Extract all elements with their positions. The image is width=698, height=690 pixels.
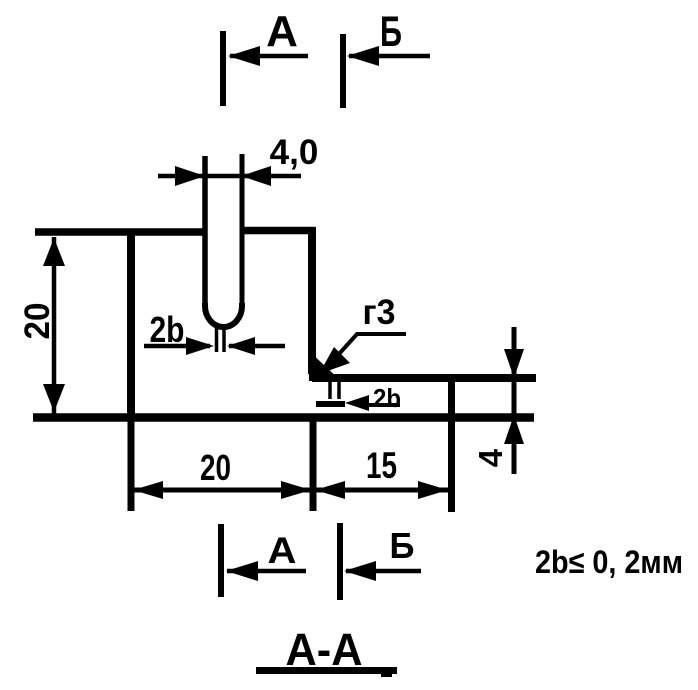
- body top edge right segment: [240, 227, 315, 235]
- section arrow A (bottom): [226, 561, 306, 581]
- dimension 20 left label: [18, 303, 57, 340]
- flange top edge with extension: [312, 374, 536, 382]
- section line A (top): [220, 31, 226, 106]
- 2b left arrow: [144, 337, 214, 355]
- slot rounded bottom: [205, 303, 242, 327]
- svg-text:А: А: [268, 530, 297, 571]
- r3 leader with arrow: [319, 334, 406, 374]
- section arrow B (bottom): [344, 561, 421, 581]
- dimension 20 left vertical line: [43, 237, 65, 414]
- bottom label 20: [200, 447, 231, 488]
- section line B (top): [340, 34, 346, 108]
- label B (bottom): [390, 525, 415, 566]
- svg-text:А: А: [266, 7, 298, 56]
- dimension 4 right vertical line: [504, 327, 524, 474]
- label 2b at slot crack: [150, 309, 185, 350]
- flange crack 2b slit: [330, 381, 339, 399]
- label A (top): [266, 7, 298, 56]
- svg-text:Б: Б: [380, 8, 402, 56]
- bottom dim extension left: [128, 418, 135, 511]
- dimension 4 label: [472, 448, 509, 467]
- title underline: [256, 667, 397, 674]
- bottom dim extension middle: [310, 418, 317, 511]
- flange 2b label: [373, 383, 401, 413]
- label B (top): [380, 8, 402, 56]
- svg-text:2b≤ 0, 2мм: 2b≤ 0, 2мм: [535, 544, 683, 580]
- body top edge left segment with extension: [35, 228, 205, 236]
- body left edge: [127, 229, 135, 420]
- bottom dim line 20-15: [132, 481, 449, 499]
- section arrow A (top): [228, 46, 308, 66]
- stray mark under underline: [381, 674, 392, 677]
- dimension 4,0 line: [158, 166, 301, 186]
- note 2b<=0,2mm: [535, 544, 683, 580]
- 2b right arrow: [227, 337, 285, 355]
- section arrow B (top): [347, 46, 430, 66]
- svg-text:4,0: 4,0: [270, 133, 319, 172]
- flange right edge with extension below: [448, 376, 455, 512]
- svg-text:2b: 2b: [373, 383, 401, 413]
- svg-text:20: 20: [18, 303, 57, 340]
- section line A (bottom): [218, 524, 224, 597]
- dimension 4,0 label: [270, 133, 319, 172]
- svg-text:15: 15: [366, 445, 397, 486]
- label r3: [363, 293, 396, 332]
- svg-text:г3: г3: [363, 293, 396, 332]
- slot right wall / extension line: [240, 154, 245, 307]
- label A (bottom): [268, 530, 297, 571]
- fillet corner r3: [309, 351, 341, 381]
- bottom label 15: [366, 445, 397, 486]
- section line B (bottom): [337, 523, 343, 600]
- flange crack foot: [316, 401, 345, 407]
- body bottom edge with extensions: [33, 413, 534, 422]
- slot left wall / extension line: [202, 156, 208, 307]
- svg-text:Б: Б: [390, 525, 415, 566]
- slot root crack 2b: [217, 327, 225, 352]
- svg-text:4: 4: [472, 448, 509, 467]
- body right tall edge: [308, 227, 316, 374]
- svg-text:20: 20: [200, 447, 231, 488]
- title A-A: [286, 624, 363, 675]
- flange 2b leader arrow: [345, 395, 400, 411]
